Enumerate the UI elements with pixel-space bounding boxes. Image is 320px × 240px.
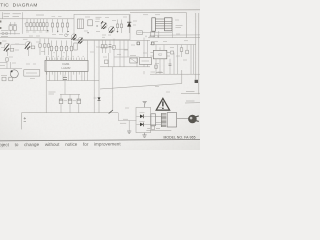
wire cap junction: [60, 93, 80, 95]
wire left long drop: [45, 56, 47, 113]
transformer case: [167, 113, 176, 127]
wire switch drop: [117, 113, 119, 121]
label X1: [130, 55, 136, 57]
wire to LED box: [118, 120, 136, 122]
wire ground ticks: [50, 75, 88, 81]
wire under transformer: [146, 130, 171, 132]
LED D203: [136, 115, 140, 117]
label Q4: [23, 38, 28, 40]
wire IC2 rail ticks: [156, 45, 164, 48]
label C210: [64, 100, 76, 102]
label band: [1, 14, 44, 37]
crystal X1: [130, 58, 138, 63]
wire tick1: [158, 31, 160, 38]
switch S201: [112, 67, 114, 110]
value labels row3: [53, 48, 70, 53]
diode D1: [128, 15, 130, 33]
wire drop x114: [113, 39, 115, 67]
block PU201: [24, 70, 40, 76]
capacitor ladder C1-C4: [53, 19, 68, 33]
label AC3: [156, 72, 163, 74]
wire low rail mid: [100, 66, 150, 68]
wire top-right feed: [130, 11, 186, 13]
capacitor C212: [78, 94, 80, 99]
edge stub 3: [0, 42, 1, 44]
node A: [65, 34, 68, 37]
AC plug: [188, 115, 197, 124]
wire drop x144: [143, 38, 145, 67]
wire pot rail: [0, 68, 22, 70]
wire IC2 right down: [173, 53, 175, 75]
resistor R21: [105, 60, 109, 64]
resistor ladder R1-R7: [27, 19, 47, 31]
label row mid: [102, 35, 111, 37]
label PU: [1, 74, 7, 76]
wire left stubs: [0, 62, 7, 65]
resistor R17: [171, 51, 174, 54]
label Q3: [2, 40, 7, 42]
wire drop x147: [147, 40, 149, 66]
wire bus y35 right: [150, 34, 200, 36]
box VOL: [137, 31, 143, 35]
resistor R18: [180, 48, 183, 52]
resistor R14: [48, 39, 50, 55]
wire jack rail: [0, 33, 20, 35]
wire x191 drop: [190, 45, 192, 75]
label AC120V: [147, 127, 160, 129]
capacitor C10: [74, 43, 77, 50]
wire drop x87: [87, 40, 89, 57]
ground: [142, 133, 146, 138]
label AC: [144, 71, 162, 74]
IC1 top pins: [47, 58, 88, 61]
wire right edge bus B: [198, 13, 200, 94]
transistor Q5: [71, 34, 76, 39]
label R10: [15, 49, 19, 51]
edge stub 1: [0, 21, 1, 23]
IC2 pins: [150, 47, 170, 61]
wire pot stubs: [7, 62, 11, 69]
label SP201: [176, 25, 183, 27]
label LED1: [140, 112, 145, 114]
wire q link: [11, 43, 25, 45]
label LED2: [140, 121, 145, 123]
wire mid rail left: [0, 37, 74, 38]
resistor R13: [44, 39, 46, 55]
label AC2: [186, 100, 195, 102]
ground at switch: [128, 121, 130, 132]
transistor Q3: [4, 43, 10, 49]
bottom rule: [0, 139, 200, 140]
battery B2: [9, 77, 13, 81]
resistor R10: [10, 48, 14, 51]
wire cord: [177, 118, 189, 120]
wire IC2 top rail: [150, 44, 196, 46]
wire ladder bottom rail: [26, 30, 49, 32]
wire B+ rail: [22, 112, 119, 114]
transistor Q6: [78, 37, 83, 42]
LED D204: [136, 123, 140, 125]
wire switch stubs: [9, 22, 17, 35]
top rule: [0, 9, 200, 12]
warning triangle: [156, 98, 169, 110]
coil T2: [88, 20, 93, 26]
wire low rail right: [150, 73, 200, 75]
label IFT: [95, 22, 100, 32]
capacitor C13: [109, 44, 112, 46]
resistor R20: [155, 65, 157, 68]
switch S2: [13, 26, 16, 30]
coil T1: [77, 19, 83, 29]
transformer T201: [161, 114, 166, 127]
tuner module box: [74, 14, 130, 39]
capacitor C11: [113, 45, 115, 49]
resistor R16: [105, 40, 107, 53]
wire bus y38 right: [148, 36, 200, 38]
wire x94 drop: [93, 81, 95, 113]
wire tick2: [171, 31, 173, 38]
label D201: [123, 118, 128, 120]
label C209: [49, 92, 56, 94]
LED module box: [136, 107, 151, 132]
label B+: [24, 117, 26, 122]
wire IC2 bottom drops2: [156, 62, 164, 74]
capacitor C209: [64, 75, 66, 78]
resistor R11: [31, 46, 35, 49]
polarity marks: [47, 26, 118, 33]
wire IC2 bottom drops: [159, 62, 161, 74]
resistor R9: [121, 20, 123, 34]
transistor Q4: [25, 41, 31, 47]
value labels scattered: [1, 15, 188, 108]
wire drop x99 long: [98, 40, 100, 112]
wire slant bus: [100, 70, 182, 89]
wire mid rail right: [74, 39, 150, 41]
transistor Q2: [109, 27, 115, 33]
wire antenna input: [2, 12, 4, 19]
motor M1: [10, 70, 18, 78]
wire mesh drops: [100, 40, 140, 66]
IC1 bottom pins: [47, 71, 88, 74]
capacitor C211: [69, 94, 71, 99]
connector block P1: [151, 114, 156, 126]
capacitor C213: [151, 126, 155, 129]
wire ac line 1: [181, 92, 200, 94]
wire B+ drop: [21, 113, 23, 130]
battery B1: [2, 77, 6, 81]
label AC1: [186, 91, 195, 93]
label pin row: [146, 36, 158, 38]
pin numbers IC1: [48, 55, 85, 57]
diode D202: [98, 97, 101, 100]
value labels row2: [52, 16, 62, 18]
wire primary links: [156, 116, 162, 122]
wire right edge bus A: [195, 13, 197, 80]
wire vol link: [142, 32, 172, 34]
box S3: [151, 32, 155, 37]
wire ac line 2: [185, 102, 200, 104]
terminal P3: [151, 42, 154, 45]
capacitor ladder C5-C9: [52, 41, 72, 61]
connector CN1: [152, 18, 156, 31]
IC1 power amp: [45, 60, 88, 71]
label D202: [94, 97, 97, 99]
wire q4 stub: [28, 48, 30, 56]
resistor R8: [117, 20, 119, 34]
ground above LED box: [143, 102, 147, 108]
wire IC1 ground rail: [47, 80, 99, 82]
value labels row1: [24, 24, 49, 32]
capacitor C12: [169, 63, 172, 65]
connector CN3: [195, 80, 198, 83]
wire top rail left: [0, 18, 74, 20]
jack J1: [1, 30, 9, 34]
wire IC2 right drop: [176, 45, 178, 75]
resistor R12: [39, 39, 41, 55]
resistor R19: [186, 50, 189, 54]
label CF1: [96, 17, 102, 19]
connector CN2: [165, 18, 173, 31]
wire q3 stub: [7, 50, 9, 56]
wire drop x124: [123, 40, 125, 66]
IC3: [140, 58, 152, 65]
wire right drop: [185, 12, 187, 37]
capacitor C210: [60, 94, 62, 99]
trimmer VR1: [6, 58, 8, 61]
label POWER: [120, 122, 126, 124]
wire left column: [22, 12, 24, 34]
resistor R15: [101, 40, 103, 53]
transistor Q1: [101, 23, 107, 29]
terminal P2: [137, 42, 140, 45]
IC2: [153, 50, 166, 58]
switch S1: [9, 26, 12, 30]
wire drop x94: [93, 40, 95, 80]
edge stub 2: [0, 27, 1, 29]
wire x193 drop: [193, 45, 195, 75]
